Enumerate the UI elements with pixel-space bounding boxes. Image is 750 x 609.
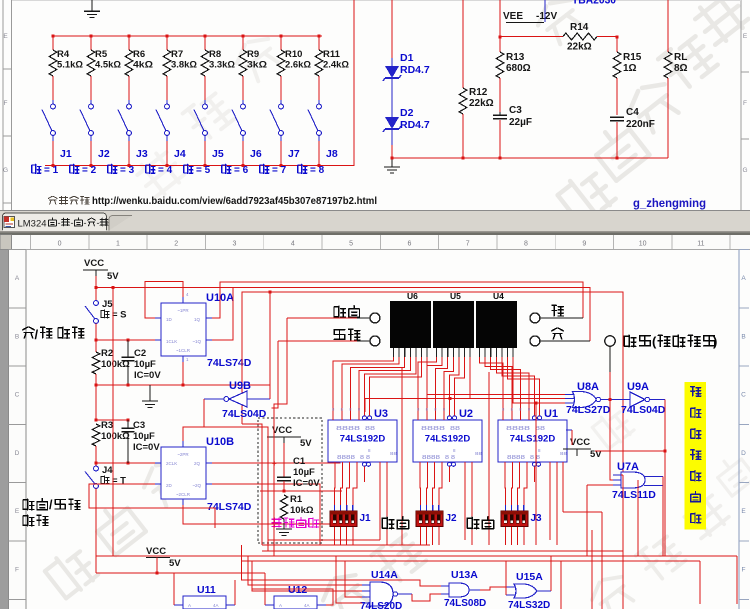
key label jian = 2 xyxy=(70,164,79,173)
bundle wires through reset box xyxy=(242,424,262,545)
right frame verticals xyxy=(736,556,738,604)
svg-text:10µF: 10µF xyxy=(133,431,155,442)
svg-text:g_zhengming: g_zhengming xyxy=(633,198,706,210)
svg-text:U11: U11 xyxy=(197,584,216,596)
resistor R4 xyxy=(52,35,55,38)
svg-text:R9: R9 xyxy=(247,49,259,60)
svg-text:8888: 8888 xyxy=(506,426,530,432)
svg-text:88: 88 xyxy=(365,426,375,432)
svg-text:LM324: LM324 xyxy=(18,219,47,230)
svg-text:U14A: U14A xyxy=(371,569,398,581)
resistor R12 22k xyxy=(462,0,464,88)
svg-text:A: A xyxy=(15,275,20,282)
sheet border right (bottom window) xyxy=(738,250,740,609)
sheet border left (top window) xyxy=(2,0,4,211)
svg-text:4.5kΩ: 4.5kΩ xyxy=(95,60,121,71)
sheet tab LM324 xyxy=(3,213,107,231)
svg-text:A: A xyxy=(279,603,282,608)
svg-text:-: - xyxy=(97,218,100,228)
svg-text:B: B xyxy=(15,333,19,340)
svg-text:): ) xyxy=(713,334,717,349)
svg-text:74LS192D: 74LS192D xyxy=(340,434,386,445)
probe run xyxy=(370,336,380,346)
svg-text:8888: 8888 xyxy=(421,426,445,432)
svg-text:6: 6 xyxy=(407,241,411,248)
bus B: ~1Q to min row xyxy=(212,288,590,342)
wire bottom of R2/C2 xyxy=(96,384,270,386)
svg-text:~1CLR: ~1CLR xyxy=(176,348,191,353)
svg-text:22µF: 22µF xyxy=(509,117,532,128)
key label jian = 3 xyxy=(108,164,117,173)
svg-text:U9A: U9A xyxy=(627,381,649,393)
svg-text:R1: R1 xyxy=(290,494,303,505)
svg-text:RD4.7: RD4.7 xyxy=(400,64,430,76)
svg-text:8: 8 xyxy=(524,241,528,248)
ground (top of piano schematic) xyxy=(91,0,93,11)
resistor RL 8 ohm xyxy=(667,0,669,52)
DIP switch J1 xyxy=(334,505,336,511)
svg-text:3.8kΩ: 3.8kΩ xyxy=(171,60,197,71)
svg-text:4A: 4A xyxy=(213,603,219,608)
vertical x270 xyxy=(269,292,271,399)
svg-text:/: / xyxy=(49,498,53,512)
svg-text:U7A: U7A xyxy=(617,461,639,473)
svg-text:VEE: VEE xyxy=(503,11,523,22)
DIP switch J3 xyxy=(505,505,507,511)
bottom horizontal bundles xyxy=(262,544,430,546)
svg-text:10µF: 10µF xyxy=(293,467,315,478)
wire U10B top pin xyxy=(183,427,204,441)
svg-text:= 1: = 1 xyxy=(44,165,59,176)
ground (R2/C2) xyxy=(149,385,151,401)
svg-text:VCC: VCC xyxy=(272,425,292,436)
svg-text:10µF: 10µF xyxy=(134,359,156,370)
svg-text:A: A xyxy=(188,603,191,608)
svg-text:R15: R15 xyxy=(623,52,642,63)
svg-text:74LS192D: 74LS192D xyxy=(425,434,471,445)
svg-text:U3: U3 xyxy=(374,408,388,420)
ground (reset) xyxy=(283,519,285,529)
svg-text:22kΩ: 22kΩ xyxy=(469,98,494,109)
svg-text:J1: J1 xyxy=(60,148,72,160)
svg-text:U4: U4 xyxy=(493,291,504,301)
svg-text:9: 9 xyxy=(582,241,586,248)
label run xyxy=(334,329,360,340)
svg-text:1CLK: 1CLK xyxy=(166,339,177,344)
svg-text:U8A: U8A xyxy=(577,381,599,393)
svg-text:= 4: = 4 xyxy=(158,165,173,176)
svg-text:74LS74D: 74LS74D xyxy=(207,357,252,369)
switch J2 xyxy=(90,100,92,104)
svg-text:2Q: 2Q xyxy=(194,461,201,466)
svg-text:74LS192D: 74LS192D xyxy=(510,434,556,445)
svg-text:= T: = T xyxy=(112,476,126,487)
svg-text:8Ω: 8Ω xyxy=(674,63,688,74)
svg-text:74LS11D: 74LS11D xyxy=(612,489,656,501)
counter U2 74LS192D xyxy=(413,420,482,462)
svg-text:10kΩ: 10kΩ xyxy=(290,505,314,516)
svg-text:5.1kΩ: 5.1kΩ xyxy=(57,60,83,71)
svg-text:J3: J3 xyxy=(531,513,543,524)
svg-text:8 8: 8 8 xyxy=(360,455,370,461)
svg-text:R8: R8 xyxy=(209,49,221,60)
svg-text:8888: 8888 xyxy=(336,426,360,432)
svg-text:= 5: = 5 xyxy=(196,165,211,176)
title countdown control circuit (yellow) xyxy=(685,382,707,530)
sheet border left (bottom window) xyxy=(9,250,27,609)
svg-text:D: D xyxy=(741,450,746,457)
svg-text:0: 0 xyxy=(58,241,62,248)
svg-text:-12V: -12V xyxy=(536,11,557,22)
svg-text:R4: R4 xyxy=(57,49,70,60)
wire U10A bottom pin xyxy=(182,362,184,385)
wire bottom-left L xyxy=(96,572,265,574)
svg-text:-: - xyxy=(71,218,74,228)
svg-text:1: 1 xyxy=(116,241,120,248)
wire 1CLK from R2/C2 xyxy=(128,339,155,341)
resistor R2 100k xyxy=(95,340,97,352)
svg-text:5: 5 xyxy=(349,241,353,248)
svg-text:R13: R13 xyxy=(506,52,525,63)
key label jian = 1 xyxy=(32,164,41,173)
svg-text:10: 10 xyxy=(639,241,647,248)
svg-text:8 8: 8 8 xyxy=(530,455,540,461)
svg-text:~2PR: ~2PR xyxy=(177,452,189,457)
svg-text:U2: U2 xyxy=(459,408,473,420)
wire preset loop U10A xyxy=(145,282,183,319)
svg-text:R14: R14 xyxy=(570,22,589,33)
svg-text:= 6: = 6 xyxy=(234,165,249,176)
svg-text:F: F xyxy=(743,100,747,107)
svg-text:VCC: VCC xyxy=(84,258,104,269)
zener diode D1 RD4.7 xyxy=(385,66,399,78)
switch J1 xyxy=(52,100,54,104)
wires U9B xyxy=(204,398,224,400)
wire right bottom bus xyxy=(392,157,668,159)
svg-text:100kΩ: 100kΩ xyxy=(101,431,130,442)
wire top bus xyxy=(53,35,322,37)
svg-text:74LS08D: 74LS08D xyxy=(444,598,486,609)
key label jian = 4 xyxy=(146,164,155,173)
svg-text:RD4.7: RD4.7 xyxy=(400,119,430,131)
gate U14A 74LS20D xyxy=(370,582,393,606)
reference text xyxy=(49,196,89,204)
svg-text:R12: R12 xyxy=(469,87,488,98)
bus D: y292 long xyxy=(242,292,623,475)
svg-text:F: F xyxy=(15,567,19,574)
switch J5 xyxy=(204,100,206,104)
label preset (bottom) xyxy=(382,517,408,529)
svg-text:74LS20D: 74LS20D xyxy=(360,601,402,609)
wire U7A input from x623 xyxy=(621,474,623,476)
svg-text:74LS32D: 74LS32D xyxy=(508,600,550,609)
svg-text:74LS74D: 74LS74D xyxy=(207,501,252,513)
svg-text:4kΩ: 4kΩ xyxy=(133,60,153,71)
ground under D2 xyxy=(391,158,393,167)
svg-text:-: - xyxy=(84,218,87,228)
svg-text:11: 11 xyxy=(697,241,704,248)
svg-text:U15A: U15A xyxy=(516,571,543,583)
svg-text:E: E xyxy=(743,33,748,40)
svg-text:74LS27D: 74LS27D xyxy=(566,404,611,416)
bus A: 1Q to sec row xyxy=(212,282,583,318)
svg-text:2: 2 xyxy=(174,241,178,248)
gate U7A 74LS11D xyxy=(621,472,645,488)
DIP switch J2 xyxy=(420,505,422,511)
svg-text:F: F xyxy=(742,567,746,574)
svg-text:TBA2030: TBA2030 xyxy=(572,0,616,7)
svg-text:C: C xyxy=(741,392,746,399)
wire U9A output down xyxy=(664,400,666,557)
capacitor C2 10uF xyxy=(127,340,129,357)
svg-text:~2CLR: ~2CLR xyxy=(176,492,191,497)
counter U1 74LS192D xyxy=(498,420,567,462)
wire ~2Q xyxy=(212,484,320,545)
resistor R6 xyxy=(128,35,131,38)
svg-text:2CLK: 2CLK xyxy=(166,461,177,466)
wire counters to DIP switches xyxy=(334,470,337,505)
svg-text:1Q: 1Q xyxy=(194,317,201,322)
wire reset node xyxy=(260,490,342,492)
svg-text:220nF: 220nF xyxy=(626,119,655,130)
inverter U9B 74LS04D xyxy=(229,391,247,407)
switch J4 key=T xyxy=(94,466,99,471)
resistor R14 22k horizontal xyxy=(500,36,563,38)
wire R2 row xyxy=(96,339,155,341)
svg-text:C: C xyxy=(15,392,20,399)
resistor R3 100k xyxy=(92,424,100,446)
svg-text:88: 88 xyxy=(450,426,460,432)
svg-text:88: 88 xyxy=(390,451,398,456)
svg-text:D2: D2 xyxy=(400,107,414,119)
key label jian = 5 xyxy=(184,164,193,173)
svg-text:C3: C3 xyxy=(133,420,145,431)
switch J8 xyxy=(318,100,320,104)
svg-text:2.4kΩ: 2.4kΩ xyxy=(323,60,349,71)
label sec xyxy=(552,305,563,316)
svg-text:1D: 1D xyxy=(166,317,173,322)
svg-text:U9B: U9B xyxy=(229,380,251,392)
svg-text:3kΩ: 3kΩ xyxy=(247,60,267,71)
svg-text:IC=0V: IC=0V xyxy=(133,442,160,453)
ruler xyxy=(0,235,750,250)
tab bar xyxy=(0,211,750,231)
svg-text:~2Q: ~2Q xyxy=(192,483,201,488)
svg-text:VCC: VCC xyxy=(146,546,166,557)
svg-text:3: 3 xyxy=(233,241,237,248)
svg-text:A: A xyxy=(741,275,746,282)
svg-text:G: G xyxy=(3,167,8,174)
wire bottom bus (keys) xyxy=(45,0,354,166)
flip-flop U10B 74LS74D xyxy=(161,447,206,499)
svg-text:D: D xyxy=(15,450,20,457)
svg-text:8888: 8888 xyxy=(507,455,525,461)
capacitor C4 220nF xyxy=(610,116,624,118)
svg-text:J4: J4 xyxy=(174,148,186,160)
svg-text:R6: R6 xyxy=(133,49,145,60)
label min xyxy=(552,328,564,339)
wire VCC right xyxy=(595,450,665,452)
wire gap verticals xyxy=(535,402,538,405)
svg-text:5V: 5V xyxy=(300,438,312,449)
svg-text:J2: J2 xyxy=(446,513,458,524)
svg-text:= 7: = 7 xyxy=(272,165,287,176)
IC U11 (clipped at bottom) xyxy=(183,596,226,609)
wire bundle corners to bottom gates xyxy=(242,551,441,586)
reset circuit dashed box xyxy=(258,418,322,543)
svg-text:88: 88 xyxy=(475,451,483,456)
svg-text:3.3kΩ: 3.3kΩ xyxy=(209,60,235,71)
svg-text:U1: U1 xyxy=(544,408,558,420)
svg-text:J7: J7 xyxy=(288,148,300,160)
svg-text:C4: C4 xyxy=(626,107,639,118)
svg-text:J2: J2 xyxy=(98,148,110,160)
svg-text:-: - xyxy=(105,218,108,228)
wire 2Q to U3 load xyxy=(212,420,364,463)
svg-text:U12: U12 xyxy=(288,584,307,596)
probe sec xyxy=(530,313,540,323)
label preset (left probes) xyxy=(334,306,360,318)
counter U3 74LS192D xyxy=(328,420,397,462)
wire U10B 2D row xyxy=(89,484,215,528)
wire U10B clk row xyxy=(96,462,155,464)
svg-text:J6: J6 xyxy=(250,148,262,160)
resistor R7 xyxy=(166,35,169,38)
svg-text:22kΩ: 22kΩ xyxy=(567,42,592,53)
resistor R10 xyxy=(280,35,283,38)
svg-text:2.6kΩ: 2.6kΩ xyxy=(285,60,311,71)
wire fan-out displays to counters xyxy=(333,357,393,412)
resistor R1 10k xyxy=(280,495,288,519)
svg-text:R3: R3 xyxy=(101,420,113,431)
label reset circuit (magenta) xyxy=(272,518,319,528)
svg-text:680Ω: 680Ω xyxy=(506,63,531,74)
key label jian = 6 xyxy=(222,164,231,173)
resistor R15 1 ohm xyxy=(616,37,618,52)
svg-text:J1: J1 xyxy=(360,513,372,524)
bus C: VCC rail top xyxy=(96,287,233,289)
svg-text:= 2: = 2 xyxy=(82,165,97,176)
svg-text:= S: = S xyxy=(112,310,127,321)
resistor R9 xyxy=(242,35,245,38)
key label jian = 7 xyxy=(260,164,269,173)
svg-text:E: E xyxy=(3,33,8,40)
svg-text:C2: C2 xyxy=(134,348,146,359)
svg-text:R2: R2 xyxy=(101,348,113,359)
svg-text:74LS04D: 74LS04D xyxy=(621,404,666,416)
svg-text:~1PR: ~1PR xyxy=(177,308,189,313)
svg-text:J8: J8 xyxy=(326,148,338,160)
svg-text:IC=0V: IC=0V xyxy=(293,478,320,489)
svg-text:G: G xyxy=(742,167,747,174)
wire U10B bottom pin xyxy=(183,505,345,524)
svg-text:R5: R5 xyxy=(95,49,108,60)
resistor R11 xyxy=(318,35,321,38)
svg-text:B: B xyxy=(741,333,745,340)
svg-text:F: F xyxy=(4,100,8,107)
capacitor C3 10uF (lower) xyxy=(127,420,129,428)
svg-text:E: E xyxy=(15,508,20,515)
svg-text:C1: C1 xyxy=(293,456,306,467)
svg-text:J5: J5 xyxy=(212,148,224,160)
svg-text:U13A: U13A xyxy=(451,569,478,581)
svg-text:U5: U5 xyxy=(450,291,461,301)
svg-text:2D: 2D xyxy=(166,483,173,488)
svg-text:R11: R11 xyxy=(323,49,341,60)
zener diode D2 RD4.7 xyxy=(385,117,399,129)
svg-text:J5: J5 xyxy=(102,299,113,310)
gate U9A 74LS04D xyxy=(630,392,645,407)
svg-text:88: 88 xyxy=(560,451,568,456)
svg-text:J4: J4 xyxy=(102,465,113,476)
svg-text:E: E xyxy=(741,508,746,515)
svg-text:5V: 5V xyxy=(169,558,181,569)
svg-text:U6: U6 xyxy=(407,291,418,301)
svg-text:= 3: = 3 xyxy=(120,165,135,176)
label min/sec toggle xyxy=(23,327,35,338)
resistor R13 680 xyxy=(499,0,501,52)
label time xyxy=(467,517,493,529)
resistor R5 xyxy=(90,35,93,38)
svg-text:R7: R7 xyxy=(171,49,183,60)
svg-text:D1: D1 xyxy=(400,52,414,64)
key label jian = 8 xyxy=(298,164,307,173)
svg-text:= 8: = 8 xyxy=(310,165,325,176)
svg-text:RL: RL xyxy=(674,52,687,63)
svg-text:http://wenku.baidu.com/view/6a: http://wenku.baidu.com/view/6add7923af45… xyxy=(92,196,377,207)
svg-text:R10: R10 xyxy=(285,49,302,60)
label preset/run toggle xyxy=(23,499,48,510)
svg-text:C3: C3 xyxy=(509,105,522,116)
svg-text:8888: 8888 xyxy=(337,455,355,461)
switch J6 xyxy=(242,100,244,104)
sheet tab 2 (partial) xyxy=(109,216,132,231)
switch J3 xyxy=(128,100,130,104)
resistor R8 xyxy=(204,35,207,38)
sheet border right (top window) xyxy=(740,0,742,211)
window divider xyxy=(0,210,750,212)
svg-text:1Ω: 1Ω xyxy=(623,63,637,74)
probe min xyxy=(530,336,540,346)
gate U8A 74LS27D xyxy=(573,392,597,408)
svg-text:8 8: 8 8 xyxy=(445,455,455,461)
switch J4 xyxy=(166,100,168,104)
switch J7 xyxy=(280,100,282,104)
svg-text:J3: J3 xyxy=(136,148,148,160)
svg-text:-: - xyxy=(58,218,61,228)
svg-text:5V: 5V xyxy=(107,271,119,282)
svg-text:4: 4 xyxy=(291,241,295,248)
capacitor C3 22uF xyxy=(499,112,501,115)
svg-text:(: ( xyxy=(652,334,657,349)
long vertical rail x113 xyxy=(112,288,114,557)
left gray window edge xyxy=(0,250,9,609)
flip-flop U10A 74LS74D xyxy=(161,303,206,356)
probe stop + label stop (control output) xyxy=(605,336,615,346)
ruler divider dark xyxy=(0,231,750,233)
svg-text:U10B: U10B xyxy=(206,436,234,448)
svg-text:~1Q: ~1Q xyxy=(192,339,201,344)
gate U13A 74LS08D xyxy=(449,583,469,597)
probe preset xyxy=(370,313,380,323)
IC U12 (clipped at bottom) xyxy=(274,596,317,609)
svg-text:4A: 4A xyxy=(304,603,310,608)
svg-text:IC=0V: IC=0V xyxy=(134,370,161,381)
svg-text:/: / xyxy=(35,327,39,342)
wire R3 row xyxy=(96,419,128,421)
gate U15A 74LS32D xyxy=(514,584,537,598)
svg-text:8888: 8888 xyxy=(422,455,440,461)
